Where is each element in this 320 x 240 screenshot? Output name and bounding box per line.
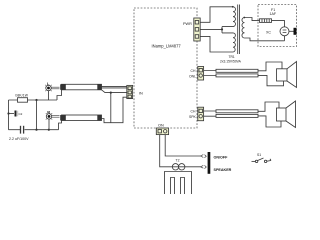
wire CH1 to cable bbox=[204, 71, 216, 76]
svg-text:T2: T2 bbox=[176, 159, 180, 163]
wire bottom horizontal bbox=[9, 129, 59, 131]
node junction dot C bbox=[35, 129, 37, 131]
wire top shield diagonal bbox=[102, 90, 128, 93]
connector CH TWO bbox=[198, 107, 204, 121]
plug SPEAKER bbox=[201, 165, 207, 168]
speaker cable 1 conductor a bbox=[216, 69, 258, 72]
node junction dot D bbox=[48, 129, 50, 131]
cable bundle bar bbox=[208, 152, 211, 174]
transformer TR1 secondary winding bbox=[242, 18, 245, 38]
speaker LS2 bbox=[277, 101, 296, 128]
wire middle vertical bbox=[36, 100, 38, 130]
connector ON bbox=[156, 128, 168, 135]
wire lamp to pin bbox=[289, 30, 294, 32]
wire L jack down bbox=[48, 91, 50, 100]
RCA jack R bbox=[46, 113, 52, 119]
wire shield vertical link bbox=[110, 93, 112, 123]
speaker cable 2 conductor a bbox=[216, 110, 258, 113]
plug ON/OFF bbox=[201, 155, 207, 158]
wire pair cable to IN pin1 bbox=[102, 86, 128, 88]
fuse F1 bbox=[260, 19, 272, 23]
svg-text:R: R bbox=[47, 110, 50, 115]
wire PWR pin3 to primary bottom bbox=[200, 36, 233, 52]
terminal pin black bbox=[294, 28, 297, 35]
svg-text:ON/OFF: ON/OFF bbox=[214, 155, 229, 159]
svg-text:XC: XC bbox=[266, 31, 271, 35]
connector IN bbox=[127, 85, 133, 98]
svg-text:PWR: PWR bbox=[183, 22, 192, 26]
tube unit box dashed bbox=[258, 5, 297, 47]
wire ON pin2 down-right bbox=[165, 135, 200, 156]
resistor 680R/1W bbox=[18, 98, 28, 103]
transformer TR1 primary winding 2 bbox=[233, 33, 235, 52]
wire secondary top to fuse bbox=[245, 18, 260, 21]
wire bottom cable shield tail left bbox=[59, 121, 62, 130]
node junction dot B bbox=[7, 112, 9, 114]
wire speaker2 bottom loop bbox=[258, 116, 281, 127]
svg-text:S1: S1 bbox=[257, 153, 261, 157]
transformer TR1 primary winding 1 bbox=[233, 7, 235, 27]
node centre tap dot bbox=[221, 28, 223, 30]
wire speaker1 top loop bbox=[258, 62, 282, 71]
svg-text:ON: ON bbox=[158, 123, 164, 127]
node shield junction dot bbox=[110, 92, 112, 94]
capacitor C2 bbox=[9, 111, 18, 117]
svg-text:2.2 uF/100V: 2.2 uF/100V bbox=[9, 137, 29, 141]
shielded cable bottom bbox=[60, 115, 101, 121]
svg-text:INamp_LM4877: INamp_LM4877 bbox=[152, 43, 182, 48]
RCA jack L bbox=[45, 85, 51, 91]
wire secondary bottom bbox=[245, 38, 285, 41]
wire left vertical bus bbox=[8, 100, 10, 130]
speaker cable 1 conductor b bbox=[216, 74, 258, 77]
svg-text:b8K/1W: b8K/1W bbox=[16, 93, 29, 97]
connector PWR bbox=[194, 18, 200, 41]
wire lamp bottom bbox=[284, 36, 286, 41]
heatsink bracket bbox=[165, 172, 192, 195]
svg-text:CH: CH bbox=[191, 69, 196, 73]
svg-text:ONL: ONL bbox=[189, 74, 196, 78]
plug R to cable bbox=[52, 116, 60, 118]
wire ON pin1 down-right bbox=[160, 135, 201, 167]
transformer TR1 core bbox=[238, 5, 240, 55]
svg-text:CH: CH bbox=[191, 110, 196, 114]
speaker LS1 bbox=[277, 62, 297, 88]
lamp XC bbox=[280, 27, 289, 36]
plug L to cable bbox=[51, 87, 59, 89]
svg-text:SPK: SPK bbox=[189, 115, 197, 119]
svg-text:1AF: 1AF bbox=[270, 12, 277, 16]
switch S1 bbox=[252, 158, 272, 163]
wire CH2 to cable bbox=[204, 111, 216, 116]
wire fuse to lamp top bbox=[272, 21, 285, 27]
wire top cable shield tail left bbox=[57, 90, 62, 100]
wire PWR pin2 to primary centre tap bbox=[200, 27, 233, 33]
speaker cable 2 conductor b bbox=[216, 114, 258, 117]
node secondary top dot bbox=[243, 17, 245, 19]
svg-text:C2: C2 bbox=[19, 112, 23, 116]
node junction dot A bbox=[35, 99, 37, 101]
node primary top dot bbox=[232, 6, 234, 8]
svg-text:IN: IN bbox=[139, 92, 143, 96]
wire speaker2 top loop bbox=[258, 102, 279, 111]
connector CH ONE bbox=[198, 67, 204, 81]
wire resistor node horizontal bbox=[9, 99, 58, 101]
transformer T2 circles bbox=[172, 164, 185, 170]
wire speaker1 bottom loop bbox=[258, 75, 284, 85]
wire R jack down bbox=[48, 119, 50, 130]
svg-text:SPEAKER: SPEAKER bbox=[214, 168, 232, 172]
shielded cable top bbox=[60, 84, 101, 90]
capacitor 2.2uF/100V bbox=[21, 126, 24, 134]
svg-text:2x3.15V/50VA: 2x3.15V/50VA bbox=[220, 59, 242, 63]
wire bottom cable signal route bbox=[102, 97, 128, 123]
wire PWR pin1 to primary top bbox=[200, 7, 233, 22]
amplifier module box dashed bbox=[134, 8, 197, 128]
